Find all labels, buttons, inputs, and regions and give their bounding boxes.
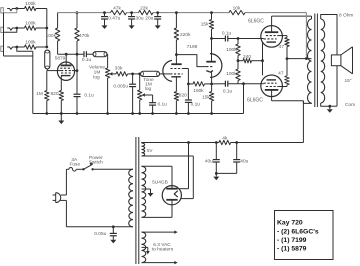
wire 5V top / B+ line: [142, 141, 304, 144]
resistor 15k triode plate load: [201, 11, 214, 38]
wire grid lead 5879: [47, 70, 61, 72]
svg-text:6L6GC: 6L6GC: [248, 19, 264, 25]
power transformer 6.3V winding: [142, 232, 146, 263]
svg-text:15k: 15k: [201, 22, 209, 28]
input jack J1: [1, 7, 18, 13]
wire screen bypass drop: [76, 54, 78, 94]
capacitor 30u filter: [128, 11, 144, 29]
svg-text:33k: 33k: [115, 65, 123, 71]
svg-text:6L6GC: 6L6GC: [247, 97, 263, 103]
resistor 10k: [229, 5, 245, 15]
svg-text:0.005u: 0.005u: [113, 83, 128, 89]
label 15": [344, 78, 351, 84]
svg-text:100k: 100k: [25, 1, 36, 7]
wire filament bottom to 5V: [181, 156, 194, 199]
power transformer core: [136, 137, 139, 264]
wire pentode plate to triode grid: [175, 53, 206, 66]
output transformer core: [315, 14, 318, 108]
label 7199: [187, 44, 198, 50]
svg-text:20u: 20u: [145, 16, 153, 22]
jack J3 sleeve wire: [17, 47, 33, 51]
svg-text:log: log: [145, 86, 152, 92]
wire triode plate lead: [211, 39, 213, 62]
resistor 820 cathode: [50, 91, 63, 115]
wire secondary top: [321, 15, 337, 55]
wire 7199 grid lead: [160, 73, 170, 75]
power transformer HV winding: [142, 166, 146, 217]
svg-text:0.1u: 0.1u: [222, 31, 232, 37]
power switch: [82, 155, 133, 171]
svg-text:5V: 5V: [147, 148, 152, 153]
wire jack mix bus: [45, 9, 48, 49]
svg-text:- (2) 6L6GC's: - (2) 6L6GC's: [277, 228, 319, 235]
svg-text:to heaters: to heaters: [152, 246, 174, 252]
svg-text:100k: 100k: [226, 47, 237, 53]
resistor 47 screen bottom: [278, 59, 289, 87]
svg-text:160k: 160k: [193, 88, 204, 94]
resistor 160k: [188, 82, 211, 94]
resistor 100k screen 5879: [46, 13, 60, 55]
power transformer primary: [129, 169, 133, 227]
jack J2 sleeve wire: [4, 28, 17, 32]
label to heaters: [152, 246, 174, 252]
label 8 Ohm: [339, 12, 353, 18]
tube U2B 7199 triode: [206, 54, 222, 84]
svg-text:100k: 100k: [25, 21, 36, 27]
resistor 22k filter: [139, 5, 154, 15]
wire HV bottom: [142, 205, 173, 218]
svg-text:Fuse: Fuse: [69, 162, 80, 168]
ground symbol main filter: [213, 173, 219, 180]
capacitor 0.1u coupling top: [222, 31, 264, 42]
wire B+ rail: [58, 12, 307, 14]
parts list box: [275, 211, 334, 260]
svg-text:Com: Com: [345, 102, 355, 108]
svg-text:47: 47: [279, 44, 285, 50]
svg-text:10k: 10k: [233, 5, 241, 11]
svg-text:5879: 5879: [55, 56, 66, 62]
svg-text:5U4GB: 5U4GB: [152, 180, 168, 186]
capacitor 20u filter: [145, 11, 161, 29]
capacitor 0.1u coupling bottom: [223, 81, 264, 95]
wire bottom plate: [272, 90, 304, 101]
svg-text:30u: 30u: [136, 16, 144, 22]
wire top cathode: [262, 42, 264, 75]
wire 6.3V bottom: [142, 261, 178, 265]
resistor 15k triode cathode: [202, 84, 214, 115]
svg-text:0.47u: 0.47u: [108, 16, 120, 22]
wire B+ riser: [302, 101, 304, 143]
AC plug: [53, 193, 67, 203]
capacitor 0.47u filter: [101, 11, 121, 29]
wire jack ground bus: [4, 13, 33, 56]
wire HV center tap: [142, 189, 154, 197]
capacitor 0.05u line: [94, 227, 117, 244]
resistor 47 screen top: [279, 36, 290, 59]
resistor 100k grid bottom: [226, 61, 240, 84]
resistor 4k: [219, 136, 231, 145]
resistor R2 100k (jack 2 mixer): [17, 21, 47, 31]
svg-text:0.1u: 0.1u: [223, 89, 233, 95]
potentiometer Volume 1M log: [89, 65, 116, 115]
capacitor 40u first: [205, 141, 220, 175]
input jack J3: [1, 46, 18, 52]
tube U2A 7199 pentode: [163, 60, 183, 91]
svg-text:8 Ohm: 8 Ohm: [339, 12, 353, 18]
wire top plate: [272, 16, 312, 32]
svg-text:220k: 220k: [180, 32, 191, 38]
svg-text:- (1) 5879: - (1) 5879: [277, 246, 307, 253]
output transformer primary: [308, 16, 312, 103]
capacitor 0.1u coupling 5879: [82, 51, 93, 63]
node triode plate: [210, 37, 213, 40]
wire screen bus: [286, 57, 312, 60]
capacitor 0.1u screen bypass 5879: [74, 93, 95, 115]
svg-text:0.05u: 0.05u: [94, 231, 106, 237]
capacitor 0.1u screen bypass 7199: [185, 84, 200, 115]
ground symbol speaker: [327, 106, 333, 113]
wire 6.3V top: [142, 230, 178, 234]
wire 7199 screen tap: [183, 69, 190, 86]
tube V3 5U4GB: [152, 180, 181, 205]
svg-text:log: log: [93, 75, 100, 81]
resistor R3 100k (jack 3 mixer): [17, 40, 47, 50]
power transformer 5V winding: [142, 143, 153, 156]
capacitor 0.005u tone: [113, 74, 136, 115]
resistor 100k grid top: [226, 39, 240, 63]
wire preamp ground rail: [33, 113, 244, 115]
tube U1 5879: [55, 54, 75, 90]
capacitor 0.1u tone wiper: [149, 95, 167, 115]
resistor 33k: [115, 65, 140, 76]
capacitor 40u second: [216, 141, 248, 173]
fuse 3A: [66, 157, 83, 171]
wire speaker return: [330, 66, 337, 107]
svg-text:7199: 7199: [187, 44, 198, 50]
svg-text:470k: 470k: [79, 33, 90, 39]
wire top coupling: [212, 38, 226, 40]
label 6.3 VAC: [153, 242, 171, 248]
wire B+ drop to screens: [305, 13, 308, 60]
input jack J2: [1, 27, 18, 33]
svg-text:40u: 40u: [205, 158, 213, 164]
svg-text:47: 47: [278, 71, 284, 77]
resistor 240 bias: [238, 54, 264, 63]
svg-text:- (1) 7199: - (1) 7199: [277, 237, 307, 244]
wire plug bottom: [65, 200, 67, 226]
wire secondary bottom: [321, 103, 331, 108]
wire input ground drop: [32, 51, 34, 113]
svg-text:820: 820: [50, 91, 58, 97]
speaker: [331, 47, 352, 74]
svg-text:100k: 100k: [25, 40, 36, 46]
svg-text:1M: 1M: [36, 91, 43, 97]
node triode cathode: [210, 83, 213, 86]
wire screen tap 5879: [72, 69, 79, 72]
resistor 820 cathode 7199: [174, 92, 187, 115]
svg-text:100k: 100k: [46, 33, 57, 39]
wire plug top: [65, 169, 67, 195]
svg-text:0.1u: 0.1u: [84, 93, 94, 99]
svg-text:820: 820: [179, 92, 187, 98]
wire filament top to B+: [179, 143, 189, 189]
svg-text:40u: 40u: [240, 158, 248, 164]
svg-text:15": 15": [344, 78, 351, 84]
shielded cable to volume: [93, 52, 107, 57]
wire plate node 5879: [58, 53, 84, 56]
tube V2 6L6GC bottom: [247, 75, 282, 103]
wire 5V bottom: [142, 155, 194, 157]
shielded cable to 5879 grid: [45, 50, 50, 71]
resistor 47k filter: [111, 5, 127, 15]
wire bottom coupling: [212, 83, 226, 85]
resistor 470k plate 5879: [75, 11, 90, 54]
jack J1 sleeve wire: [4, 9, 17, 13]
wire HV top: [142, 166, 173, 186]
wire 6.3V center tap: [142, 247, 150, 254]
potentiometer Tone 1M log: [138, 73, 155, 115]
tube V1 6L6GC top: [248, 19, 282, 48]
resistor R1 100k (jack 1 mixer): [17, 1, 47, 11]
resistor 220k plate 7199: [174, 11, 191, 64]
wire ground riser: [243, 84, 245, 114]
svg-text:0.1u: 0.1u: [158, 101, 168, 107]
wire primary bottom: [303, 101, 311, 104]
wire primary bottom PT: [66, 225, 133, 228]
output transformer secondary: [321, 19, 325, 103]
ground symbol preamp rail: [58, 114, 64, 125]
svg-text:0.1u: 0.1u: [191, 102, 201, 108]
label Com: [345, 102, 355, 108]
wire to volume pot: [106, 54, 109, 68]
resistor 1M grid leak: [36, 71, 49, 115]
svg-text:0.1u: 0.1u: [82, 57, 92, 63]
shielded cable to 7199 grid: [141, 71, 160, 76]
svg-text:Kay 720: Kay 720: [277, 220, 303, 227]
